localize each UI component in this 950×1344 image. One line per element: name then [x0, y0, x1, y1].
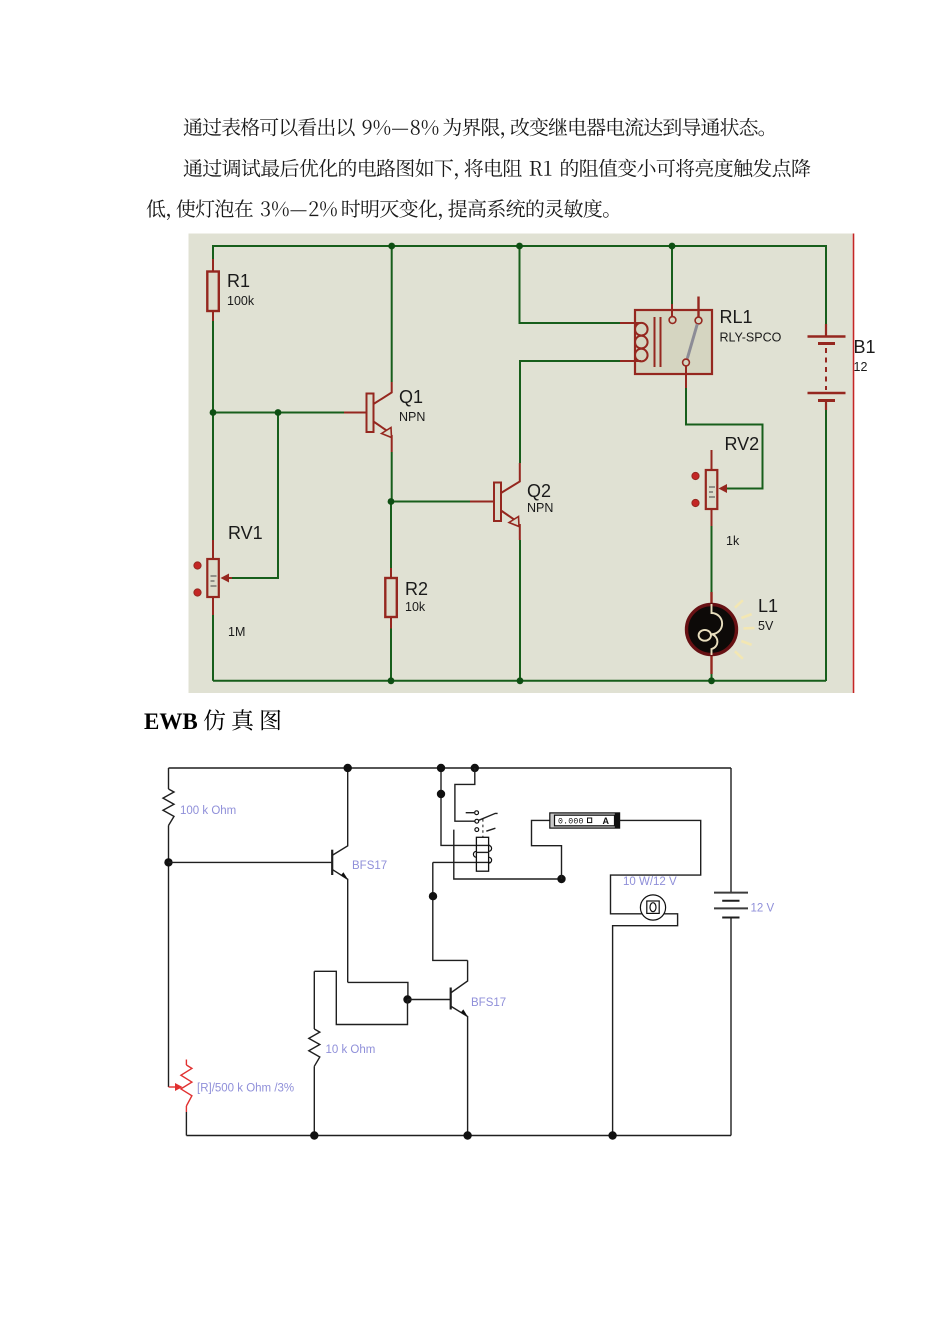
- ewb relay contact: [466, 811, 498, 837]
- svg-text:Q2: Q2: [527, 481, 551, 501]
- svg-text:NPN: NPN: [399, 410, 425, 424]
- resistor R1: [207, 259, 219, 321]
- RV1 adjust dot down: [194, 589, 201, 596]
- ewb wire coil bottom: [433, 861, 491, 863]
- schematic right red border: [853, 234, 855, 694]
- potentiometer RV2: [706, 450, 727, 526]
- ewb node rail a: [437, 764, 445, 772]
- ewb transistor Q1 BFS17: [332, 768, 348, 982]
- resistor R2: [385, 568, 397, 629]
- ewb node base Q1: [164, 858, 172, 866]
- svg-text:100k: 100k: [227, 294, 255, 308]
- ewb transistor Q2 BFS17: [451, 960, 468, 1135]
- node top rail Q1: [388, 243, 395, 250]
- ewb wire battery top: [730, 768, 732, 893]
- ewb wire Q2 collector up: [433, 862, 468, 960]
- transistor Q2: [470, 463, 520, 540]
- svg-text:B1: B1: [854, 337, 876, 357]
- svg-text:NPN: NPN: [527, 501, 553, 515]
- wire relay NO to RV2: [686, 388, 763, 489]
- wire RV1 bottom to rail: [212, 615, 214, 681]
- svg-text:12: 12: [854, 360, 868, 374]
- potentiometer RV1: [207, 540, 232, 615]
- svg-text:1k: 1k: [726, 534, 740, 548]
- node rail R2: [388, 677, 395, 684]
- svg-text:10k: 10k: [405, 600, 426, 614]
- ewb wire coil top feed: [441, 768, 490, 845]
- lamp L1: [687, 592, 737, 674]
- wire relay coil top feed: [520, 246, 621, 323]
- wire node A to Q1 base: [213, 412, 344, 414]
- ewb wire 10k top: [313, 971, 315, 1029]
- ewb lamp: [640, 895, 665, 920]
- svg-text:RL1: RL1: [720, 307, 753, 327]
- wire R2 bottom: [390, 629, 392, 681]
- svg-text:1M: 1M: [228, 625, 245, 639]
- svg-text:RV2: RV2: [725, 434, 760, 454]
- svg-text:12 V: 12 V: [751, 903, 775, 915]
- schematic 1 background: [189, 234, 853, 694]
- battery B1: [808, 324, 846, 410]
- wire bottom rail: [213, 680, 826, 682]
- ewb resistor 100k: [163, 789, 174, 826]
- ewb node feed: [437, 790, 445, 798]
- lamp L1 rays: [735, 600, 755, 659]
- ewb ammeter: [550, 813, 620, 828]
- paragraph line 1: [184, 118, 764, 139]
- node rail Q2e: [517, 677, 524, 684]
- wire battery bottom: [825, 409, 827, 681]
- ewb wire bottom rail: [186, 1135, 731, 1137]
- ewb wire battery bottom: [730, 918, 732, 1136]
- wire top rail: [213, 245, 826, 247]
- ewb node rail 10k: [310, 1131, 318, 1139]
- node top rail relay: [669, 243, 676, 250]
- svg-text:100 k Ohm: 100 k Ohm: [180, 805, 236, 817]
- heading 仿真图: [204, 709, 281, 730]
- wire lamp to rail: [711, 662, 713, 681]
- svg-text:RLY-SPCO: RLY-SPCO: [720, 331, 782, 345]
- paragraph line 3: [147, 199, 609, 220]
- ewb node rail Q2e: [463, 1131, 471, 1139]
- ewb node meter corner: [557, 875, 565, 883]
- svg-text:0.000: 0.000: [558, 817, 584, 826]
- paragraph line 2: [184, 159, 811, 180]
- svg-text:Q1: Q1: [399, 387, 423, 407]
- wire RV1 wiper riser: [232, 413, 278, 579]
- RV2 adjust dot up: [692, 472, 699, 479]
- RV2 adjust dot down: [692, 499, 699, 506]
- ewb node rail Q1c: [344, 764, 352, 772]
- wire Q2 emitter down: [519, 540, 521, 681]
- RV1 adjust dot up: [194, 562, 201, 569]
- ewb node rail lamp: [608, 1131, 616, 1139]
- svg-text:10 W/12 V: 10 W/12 V: [623, 876, 677, 888]
- wire Q2 base: [391, 501, 470, 503]
- svg-text:[R]/500 k Ohm /3%: [R]/500 k Ohm /3%: [197, 1083, 294, 1095]
- ewb resistor 10k: [309, 1029, 320, 1066]
- ewb relay coil: [473, 837, 491, 871]
- ewb node collector riser: [429, 892, 437, 900]
- node wiper riser: [275, 409, 282, 416]
- ewb wire Q1e to base node Q2: [348, 982, 408, 999]
- node top rail coil: [516, 243, 523, 250]
- ewb wire contact to meter node: [454, 830, 562, 879]
- ewb potentiometer R 500k: [169, 1060, 192, 1136]
- ewb wire meter right: [611, 820, 701, 1135]
- wire Q1 emitter to Q2 base node: [391, 452, 393, 502]
- svg-text:10 k Ohm: 10 k Ohm: [326, 1044, 376, 1056]
- wire Q1 collector to rail: [391, 246, 393, 382]
- wire relay common from rail: [671, 246, 673, 304]
- svg-text:R1: R1: [227, 271, 250, 291]
- ewb wire left top: [168, 768, 170, 789]
- svg-text:5V: 5V: [758, 619, 774, 633]
- ewb node Q2 base: [403, 995, 411, 1003]
- ewb wire hook 10k: [314, 971, 407, 1024]
- ewb wire meter left: [532, 820, 562, 879]
- wire relay coil bottom to Q2 collector: [520, 361, 620, 463]
- wire R1 top: [212, 245, 214, 259]
- node rail lamp: [708, 677, 715, 684]
- svg-text:A: A: [603, 816, 610, 826]
- relay RL1: [620, 297, 712, 389]
- ewb battery 12V: [714, 893, 748, 918]
- svg-text:R2: R2: [405, 579, 428, 599]
- ewb wire switch feed: [455, 768, 475, 821]
- svg-text:RV1: RV1: [228, 523, 263, 543]
- wire R1 to node A: [212, 321, 214, 540]
- svg-text:L1: L1: [758, 596, 778, 616]
- svg-text:EWB: EWB: [144, 709, 198, 734]
- node A R1/RV1: [210, 409, 217, 416]
- svg-text:BFS17: BFS17: [352, 860, 387, 872]
- ewb wire Q2 base lead: [408, 999, 451, 1001]
- ewb wire top rail: [169, 767, 732, 769]
- svg-text:BFS17: BFS17: [471, 997, 506, 1009]
- wire RV2 to lamp: [711, 526, 713, 596]
- node Q2 base: [388, 498, 395, 505]
- transistor Q1: [344, 382, 392, 452]
- wire battery top: [825, 245, 827, 324]
- wire R2 top: [390, 502, 392, 569]
- ewb wire left column: [168, 826, 170, 1088]
- ewb wire Q1 base: [169, 861, 332, 863]
- ewb wire 10k bottom: [313, 1066, 315, 1135]
- ewb node rail b: [471, 764, 479, 772]
